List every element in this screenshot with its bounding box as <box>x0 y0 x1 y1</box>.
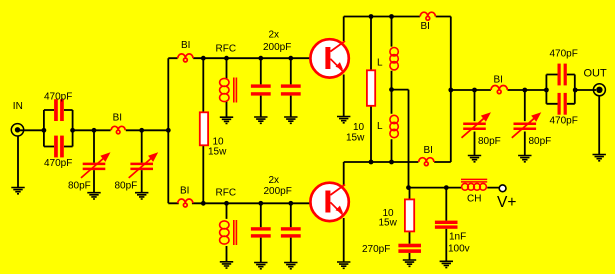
svg-text:RFC: RFC <box>216 44 237 55</box>
wire bottom branch <box>168 202 310 204</box>
OUT connector jack <box>593 84 605 96</box>
svg-text:RFC: RFC <box>216 188 237 199</box>
wire RFC1 drop <box>226 58 228 117</box>
node input loop left <box>42 128 47 133</box>
node output loop right <box>573 88 578 93</box>
svg-text:CH: CH <box>467 194 481 205</box>
capacitor 200pF C7 <box>251 227 271 237</box>
inductor L1 <box>390 48 398 70</box>
grounds <box>11 117 606 269</box>
wire trimmer C10 drop <box>524 90 526 156</box>
wire trimmer C9 drop <box>474 90 476 156</box>
wire R1 bottom link <box>202 145 204 203</box>
wire R3 to 270pF <box>409 231 411 260</box>
wire output loop left vertical <box>545 75 547 104</box>
resistor R3 10 15w <box>405 199 414 231</box>
svg-text:10: 10 <box>353 122 365 133</box>
wire input loop left vertical <box>43 110 45 147</box>
svg-text:200pF: 200pF <box>263 42 291 53</box>
ground trimmer C3 <box>87 193 100 199</box>
svg-text:BI: BI <box>181 40 190 51</box>
ground trimmer C4 <box>135 193 148 199</box>
node C7 tap <box>258 201 263 206</box>
capacitor 200pF C8 <box>281 227 301 237</box>
svg-text:470pF: 470pF <box>550 49 578 60</box>
node trimmer C10 tap <box>522 88 527 93</box>
svg-text:V+: V+ <box>497 194 516 211</box>
wire R1 top link <box>202 58 204 112</box>
svg-text:2x: 2x <box>269 30 280 41</box>
wire input loop bottom side <box>44 146 73 148</box>
wire top branch <box>168 57 310 59</box>
node C5 tap <box>258 56 263 61</box>
trimmer capacitor 80pF C4 <box>129 154 156 178</box>
wire IN to input cap loop <box>18 129 44 131</box>
ground Q1 emitter <box>337 117 350 123</box>
node input loop right <box>70 128 75 133</box>
wire output line <box>451 89 596 91</box>
ground C7 <box>254 263 267 269</box>
svg-text:80pF: 80pF <box>115 181 138 192</box>
node splitter <box>166 128 171 133</box>
resistor R1 10 15w <box>200 112 208 145</box>
wire lower collector line <box>344 161 451 163</box>
V+ terminal <box>499 185 506 192</box>
node RFC2 tap <box>224 201 229 206</box>
svg-text:470pF: 470pF <box>44 158 72 169</box>
ground trimmer C9 <box>468 156 481 162</box>
inductor RFC1 <box>220 78 237 103</box>
svg-text:15w: 15w <box>208 147 227 158</box>
svg-text:L: L <box>377 58 383 69</box>
inductor L2 <box>390 115 398 137</box>
node output line left <box>448 88 453 93</box>
wire Q1 emitter to ground <box>343 75 345 117</box>
node R2 top rail <box>369 14 374 19</box>
inductor BI top branch <box>178 54 193 62</box>
svg-text:200pF: 200pF <box>264 186 292 197</box>
svg-text:L: L <box>377 121 383 132</box>
wire Q2 emitter to ground <box>343 218 345 262</box>
node R1 bottom <box>201 201 206 206</box>
wire trimmer C4 drop <box>141 130 143 192</box>
ground trimmer C10 <box>518 156 531 162</box>
inductor CH choke <box>461 179 487 190</box>
svg-text:270pF: 270pF <box>362 244 390 255</box>
svg-text:80pF: 80pF <box>529 136 552 147</box>
svg-text:OUT: OUT <box>584 68 608 80</box>
wire 1nF drop <box>445 188 447 262</box>
inductor BI top rail <box>420 12 435 20</box>
capacitor 1nF 100v <box>435 221 458 229</box>
svg-text:BI: BI <box>113 113 122 124</box>
wire RFC2 drop <box>226 203 228 261</box>
svg-text:470pF: 470pF <box>550 116 578 127</box>
svg-text:BI: BI <box>421 21 430 32</box>
ground 1nF <box>440 261 453 267</box>
ground C8 <box>284 263 297 269</box>
wire right vertical joining rails <box>450 17 452 163</box>
node output loop left <box>544 88 549 93</box>
svg-text:15w: 15w <box>379 218 398 229</box>
ground C5 <box>254 117 267 123</box>
svg-text:BI: BI <box>180 186 189 197</box>
inductor BI lower rail <box>419 158 434 166</box>
IN connector jack <box>11 124 23 136</box>
trimmer capacitor 80pF C10 <box>512 114 539 138</box>
capacitor 470pF input top <box>54 99 64 121</box>
wire Q1 collector <box>343 17 345 42</box>
node R2 lower rail <box>369 160 374 165</box>
capacitor 200pF C5 <box>251 84 271 95</box>
svg-text:IN: IN <box>13 101 23 112</box>
wire splitter vertical <box>167 58 169 203</box>
svg-text:15w: 15w <box>346 133 365 144</box>
ground C6 <box>284 117 297 123</box>
capacitor 470pF output bottom <box>558 93 567 115</box>
ground 270pF <box>403 260 416 266</box>
wire R3 top link <box>409 188 411 200</box>
transistor Q2 <box>310 183 348 221</box>
svg-text:BI: BI <box>424 145 433 156</box>
svg-text:BI: BI <box>494 75 503 86</box>
svg-text:80pF: 80pF <box>478 136 501 147</box>
trimmer capacitor 80pF C3 <box>81 154 108 178</box>
wire trimmer C3 drop <box>93 130 95 192</box>
ground OUT jack <box>593 155 606 161</box>
wire output loop top side <box>546 74 574 76</box>
capacitor 270pF <box>398 244 421 253</box>
trimmer capacitor 80pF C9 <box>462 114 489 138</box>
inductor RFC2 <box>220 220 237 245</box>
node trimmer C3 tap <box>92 128 97 133</box>
node L2 lower rail <box>389 160 394 165</box>
transistor Q1 <box>310 39 348 77</box>
ground RFC1 <box>220 117 233 123</box>
wire L1 links <box>391 17 393 90</box>
node trimmer C4 tap <box>139 128 144 133</box>
inductor BI bottom branch <box>178 199 193 207</box>
node V+ rail R3 <box>406 185 411 190</box>
node trimmer C9 tap <box>472 88 477 93</box>
svg-text:470pF: 470pF <box>44 92 72 103</box>
svg-text:1nF: 1nF <box>449 232 466 243</box>
wire IN jack to ground <box>17 136 19 188</box>
node L1 top rail <box>389 14 394 19</box>
wire 200pF C7 drop <box>260 203 262 262</box>
wire R2 top link <box>370 17 372 71</box>
wire Q2 collector <box>343 162 345 185</box>
wire 200pF C5 drop <box>260 58 262 117</box>
wire L2 links <box>391 90 393 162</box>
svg-text:2x: 2x <box>269 175 280 186</box>
wire main input line <box>73 129 169 131</box>
inductor BI input <box>111 126 125 134</box>
node RFC1 tap <box>224 56 229 61</box>
node C6 tap <box>288 56 293 61</box>
capacitor 470pF input bottom <box>54 136 64 158</box>
wire input loop top side <box>44 109 73 111</box>
wire 200pF C8 drop <box>290 203 292 262</box>
ground Q2 emitter <box>337 262 350 268</box>
ground RFC2 <box>220 262 233 268</box>
node R1 top <box>201 56 206 61</box>
node V+ rail 1nF <box>444 185 449 190</box>
wire 200pF C6 drop <box>290 58 292 117</box>
capacitor 200pF C6 <box>281 84 301 95</box>
svg-text:80pF: 80pF <box>68 181 91 192</box>
wire input loop right vertical <box>72 110 74 147</box>
wire output loop right vertical <box>574 75 576 104</box>
wire top rail <box>344 16 451 18</box>
wire OUT jack to ground <box>598 97 600 155</box>
wire R2 bottom link <box>370 106 372 162</box>
resistor R2 10 15w <box>367 70 375 106</box>
node C8 tap <box>288 201 293 206</box>
inductor BI output <box>491 86 507 94</box>
node tank center tap <box>389 87 394 92</box>
wire center tap to V+ rail <box>392 90 409 188</box>
wire V+ rail <box>409 187 500 189</box>
capacitor 470pF output top <box>558 64 567 86</box>
svg-text:100v: 100v <box>448 244 470 255</box>
ground IN jack <box>11 188 24 194</box>
wire output loop bottom side <box>546 103 574 105</box>
